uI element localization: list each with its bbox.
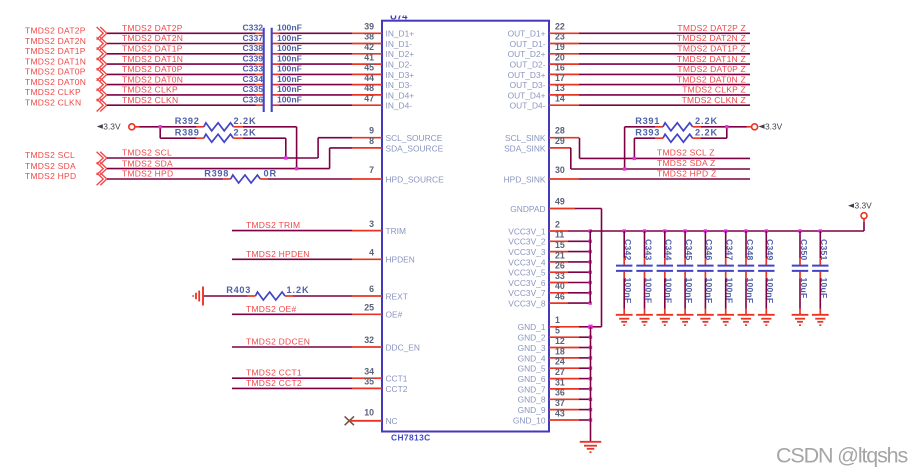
- wire R391 branch to SDA Z: [625, 127, 655, 169]
- svg-text:SDA_SINK: SDA_SINK: [504, 143, 546, 153]
- junction SCL / R389: [284, 156, 287, 159]
- wire ground to R403: [204, 295, 248, 297]
- svg-text:SDA_SOURCE: SDA_SOURCE: [386, 143, 444, 153]
- wire R393 branch to SCL Z: [634, 138, 655, 158]
- resistor R393 2.2K: [635, 128, 718, 143]
- wire TMDS2 HPD Z: [579, 178, 750, 180]
- svg-text:TMDS2 DAT2P: TMDS2 DAT2P: [122, 23, 183, 33]
- wire C342 to ground: [623, 278, 625, 314]
- pin 11 VCC3V_2: [508, 230, 568, 247]
- svg-text:TMDS2 DAT0N: TMDS2 DAT0N: [25, 77, 86, 87]
- svg-text:OUT_D3+: OUT_D3+: [508, 70, 546, 80]
- wire GND_8 to bus: [579, 398, 591, 400]
- wire VCC3V_5 to bus: [568, 271, 590, 273]
- pin 29 SDA_SINK: [504, 136, 571, 153]
- svg-text:C332: C332: [242, 23, 263, 33]
- capacitor C338 labels: [242, 43, 301, 53]
- junction VCC3V_7: [589, 291, 592, 294]
- label TMDS2 CCT2: [246, 378, 302, 388]
- pin 41 IN_D2-: [352, 52, 412, 69]
- svg-text:2.2K: 2.2K: [695, 128, 718, 138]
- wire TMDS2 DAT0N to capacitor C334: [107, 84, 256, 86]
- pin 5 GND_2: [518, 326, 579, 343]
- svg-text:TMDS2 SCL: TMDS2 SCL: [25, 150, 75, 160]
- capacitor C345 100nF: [677, 239, 694, 303]
- svg-text:VCC3V_7: VCC3V_7: [508, 288, 546, 298]
- capacitor C349 100nF: [758, 239, 775, 303]
- wire VCC3V_1 to bus: [568, 230, 590, 232]
- svg-text:TMDS2 DAT2P Z: TMDS2 DAT2P Z: [677, 23, 746, 33]
- wire GND_5 to bus: [579, 367, 591, 369]
- wire rail to C346: [704, 231, 706, 258]
- pin 12 GND_3: [518, 336, 579, 353]
- svg-text:2.2K: 2.2K: [695, 116, 718, 126]
- svg-text:100nF: 100nF: [277, 53, 302, 63]
- svg-text:38: 38: [364, 32, 374, 42]
- svg-text:TMDS2 DAT0P Z: TMDS2 DAT0P Z: [677, 64, 746, 74]
- svg-text:23: 23: [555, 32, 565, 42]
- capacitor C339 pins: [256, 63, 280, 65]
- svg-text:R389: R389: [175, 128, 200, 138]
- wire GND_10 to bus: [579, 419, 591, 421]
- svg-text:IN_D1-: IN_D1-: [386, 39, 413, 49]
- svg-text:TMDS2 DAT1P: TMDS2 DAT1P: [25, 46, 86, 56]
- svg-text:25: 25: [364, 303, 374, 313]
- resistor R392 2.2K: [175, 116, 257, 131]
- svg-text:R398: R398: [204, 168, 229, 178]
- capacitor C332 pins: [256, 32, 280, 34]
- junction VCC rail / C345: [683, 229, 686, 232]
- svg-text:TMDS2 CLKN: TMDS2 CLKN: [25, 98, 81, 108]
- svg-text:TMDS2 SDA: TMDS2 SDA: [122, 158, 173, 168]
- svg-text:C338: C338: [242, 43, 263, 53]
- capacitor C333 labels: [242, 64, 301, 74]
- svg-text:R391: R391: [635, 116, 660, 126]
- label TMDS2 SDA Z: [657, 158, 715, 168]
- svg-text:C350: C350: [799, 239, 809, 261]
- svg-text:OUT_D4-: OUT_D4-: [510, 101, 546, 111]
- svg-text:14: 14: [555, 93, 565, 103]
- label TMDS2 DDCEN: [246, 337, 310, 347]
- svg-text:VCC3V_8: VCC3V_8: [508, 299, 546, 309]
- svg-text:15: 15: [555, 240, 565, 250]
- wire TMDS2 DAT2N to capacitor C337: [107, 43, 256, 45]
- wire TMDS2 CCT2: [232, 387, 352, 389]
- wire VCC3V_7 to bus: [568, 292, 590, 294]
- svg-text:VCC3V_3: VCC3V_3: [508, 247, 546, 257]
- capacitor C351 10uF: [812, 239, 829, 298]
- wire GND_3 to bus: [579, 347, 591, 349]
- svg-text:TMDS2 HPD Z: TMDS2 HPD Z: [657, 168, 716, 178]
- junction GND_2: [589, 336, 592, 339]
- svg-text:12: 12: [555, 336, 565, 346]
- label TMDS2 DAT1N on wire: [122, 54, 183, 64]
- wire C343 to ground: [644, 278, 646, 314]
- svg-text:OUT_D2+: OUT_D2+: [508, 49, 546, 59]
- svg-text:GND_1: GND_1: [518, 322, 546, 332]
- junction VCC rail / C342: [623, 229, 626, 232]
- svg-text:TMDS2 SDA: TMDS2 SDA: [25, 161, 76, 171]
- capacitor C338 pins: [256, 53, 280, 55]
- label +3.3V rail: [848, 201, 872, 211]
- svg-text:GND_5: GND_5: [518, 364, 546, 374]
- wire TMDS2 HPDEN: [232, 258, 352, 260]
- svg-text:43: 43: [555, 408, 565, 418]
- junction GND_4: [589, 356, 592, 359]
- pin 36 GND_8: [518, 388, 579, 405]
- label TMDS2 SDA: [122, 158, 173, 168]
- wire TMDS2 DAT1N to capacitor C339: [107, 63, 256, 65]
- junction VCC3V_1: [589, 229, 592, 232]
- svg-text:OUT_D2-: OUT_D2-: [510, 60, 546, 70]
- svg-text:2.2K: 2.2K: [234, 116, 257, 126]
- pin 14 OUT_D4-: [510, 93, 579, 110]
- capacitor C334 pins: [256, 84, 280, 86]
- ground under C344: [656, 315, 673, 326]
- node TMDS2 DAT1N left name: [25, 56, 86, 66]
- junction VCC rail / C347: [724, 229, 727, 232]
- svg-text:TMDS2 CCT2: TMDS2 CCT2: [246, 378, 302, 388]
- svg-text:IN_D1+: IN_D1+: [386, 29, 415, 39]
- pin 10 NC: [349, 408, 397, 427]
- power +3.3V left: [97, 121, 140, 131]
- svg-text:29: 29: [555, 136, 565, 146]
- wire rail to C345: [684, 231, 686, 258]
- pin 34 CCT1: [352, 366, 408, 383]
- ground under C342: [616, 315, 633, 326]
- svg-text:32: 32: [364, 335, 374, 345]
- svg-text:NC: NC: [386, 416, 398, 426]
- wire C344 to ground: [664, 278, 666, 314]
- svg-text:27: 27: [555, 367, 565, 377]
- label TMDS2 DAT0P on wire: [122, 64, 183, 74]
- svg-text:30: 30: [555, 165, 565, 175]
- svg-text:TMDS2 OE#: TMDS2 OE#: [246, 304, 296, 314]
- capacitor C348 100nF: [738, 239, 755, 303]
- svg-text:TMDS2 SCL: TMDS2 SCL: [122, 148, 172, 158]
- capacitor C337 labels: [242, 33, 301, 43]
- svg-text:34: 34: [364, 366, 374, 376]
- label TMDS2 SCL: [122, 148, 172, 158]
- svg-text:3: 3: [369, 219, 374, 229]
- svg-text:10: 10: [364, 408, 374, 418]
- svg-text:TMDS2 DAT0P: TMDS2 DAT0P: [122, 64, 183, 74]
- svg-text:4: 4: [369, 248, 374, 258]
- port connector TMDS2 CLKN: [97, 99, 107, 112]
- svg-text:TMDS2 CLKP: TMDS2 CLKP: [25, 87, 81, 97]
- wire GND_6 to bus: [579, 378, 591, 380]
- svg-text:VCC3V_6: VCC3V_6: [508, 278, 546, 288]
- svg-text:OUT_D1+: OUT_D1+: [508, 29, 546, 39]
- svg-text:TMDS2 DAT2N Z: TMDS2 DAT2N Z: [677, 33, 746, 43]
- port connector TMDS2 DAT2P: [97, 27, 107, 40]
- label TMDS2 HPD: [122, 169, 173, 179]
- svg-text:TMDS2 DAT2N: TMDS2 DAT2N: [25, 36, 86, 46]
- svg-text:C345: C345: [684, 239, 694, 261]
- ground under C350: [792, 315, 809, 326]
- ground under C343: [636, 315, 653, 326]
- label TMDS2 DAT0N on wire: [122, 74, 183, 84]
- wire VCC3V_8 to bus: [568, 302, 590, 304]
- svg-text:100nF: 100nF: [277, 64, 302, 74]
- wire TMDS2 CLKP to capacitor C335: [107, 94, 256, 96]
- no-connect X on pin 10: [345, 416, 354, 425]
- svg-text:44: 44: [364, 73, 374, 83]
- ground main: [580, 442, 602, 453]
- junction GND_5: [589, 367, 592, 370]
- capacitor C336 pins: [256, 104, 280, 106]
- svg-text:13: 13: [555, 83, 565, 93]
- svg-text:VCC3V_1: VCC3V_1: [508, 226, 546, 236]
- wire TMDS2 DAT2N Z: [579, 43, 750, 45]
- svg-text:37: 37: [555, 398, 565, 408]
- pin 30 HPD_SINK: [504, 165, 579, 184]
- wire R403 to pin 6 REXT: [293, 295, 352, 297]
- svg-text:41: 41: [364, 52, 374, 62]
- label TMDS2 CLKP Z: [682, 85, 746, 95]
- svg-text:GND_6: GND_6: [518, 374, 546, 384]
- junction GND_1: [588, 325, 592, 329]
- wire TMDS2 DAT0P to capacitor C333: [107, 73, 256, 75]
- svg-text:100nF: 100nF: [277, 74, 302, 84]
- label TMDS2 DAT1P on wire: [122, 44, 183, 54]
- wire VCC vertical bus: [589, 231, 591, 303]
- svg-text:OUT_D4+: OUT_D4+: [508, 90, 546, 100]
- wire GND_4 to bus: [579, 357, 591, 359]
- wire rail to C342: [623, 231, 625, 258]
- svg-text:IN_D3-: IN_D3-: [386, 80, 413, 90]
- pin 16 OUT_D3+: [508, 63, 579, 80]
- capacitor C350 10uF: [792, 239, 809, 298]
- wire TMDS2 DAT1P to capacitor C338: [107, 53, 256, 55]
- capacitor bank plates C332-C339: [264, 28, 272, 112]
- svg-text:36: 36: [555, 388, 565, 398]
- pin 21 VCC3V_4: [508, 250, 568, 267]
- label TMDS2 HPD Z: [657, 168, 716, 178]
- svg-text:100nF: 100nF: [277, 23, 302, 33]
- wire C333 to pin 45: [280, 73, 353, 75]
- svg-text:VCC3V_4: VCC3V_4: [508, 257, 546, 267]
- pin 38 IN_D1-: [352, 32, 412, 49]
- pin 24 GND_5: [518, 357, 579, 374]
- wire rail to C347: [725, 231, 727, 258]
- pin 47 IN_D4-: [352, 93, 412, 110]
- pin 4 HPDEN: [352, 248, 415, 265]
- wire VCC3V_2 to bus: [568, 240, 590, 242]
- svg-text:C339: C339: [242, 53, 263, 63]
- svg-text:9: 9: [369, 126, 374, 136]
- wire rail to C344: [664, 231, 666, 258]
- junction R393 / SCL Z: [633, 157, 636, 160]
- svg-text:TMDS2 CLKP: TMDS2 CLKP: [122, 85, 178, 95]
- wire rail to C349: [765, 231, 767, 258]
- resistor R398 0R: [204, 168, 277, 183]
- wire C349 to ground: [765, 278, 767, 314]
- ground under C347: [717, 315, 734, 326]
- label TMDS2 CLKP on wire: [122, 85, 178, 95]
- svg-text:C347: C347: [725, 239, 735, 261]
- wire C350 to ground: [799, 278, 801, 314]
- wire C338 to pin 42: [280, 53, 353, 55]
- svg-text:TMDS2 DAT1N: TMDS2 DAT1N: [122, 54, 183, 64]
- junction VCC3V_3: [589, 250, 592, 253]
- wire TMDS2 CLKN to capacitor C336: [107, 104, 256, 106]
- svg-text:6: 6: [369, 284, 374, 294]
- svg-text:TMDS2 SDA Z: TMDS2 SDA Z: [657, 158, 715, 168]
- op-amp U? partial designator (cropped text above chip): [390, 11, 408, 22]
- wire TMDS2 SDA Z: [571, 148, 750, 169]
- pin 49 GNDPAD: [510, 197, 575, 215]
- svg-text:45: 45: [364, 63, 374, 73]
- junction GND_3: [589, 346, 592, 349]
- svg-text:CSDN @ltqshs: CSDN @ltqshs: [776, 444, 907, 468]
- wire VCC3V power rail: [590, 219, 864, 231]
- svg-text:OE#: OE#: [386, 310, 403, 320]
- pin 45 IN_D3+: [352, 63, 414, 80]
- pin 1 GND_1: [518, 315, 579, 332]
- junction R391 / SDA Z: [623, 167, 626, 170]
- capacitor C343 100nF: [636, 239, 653, 303]
- capacitor C344 100nF: [657, 239, 674, 303]
- capacitor C337 pins: [256, 43, 280, 45]
- svg-text:C342: C342: [623, 239, 633, 261]
- svg-text:31: 31: [555, 377, 565, 387]
- junction VCC3V_6: [589, 281, 592, 284]
- pin 35 CCT2: [352, 377, 408, 394]
- svg-text:1: 1: [555, 315, 560, 325]
- svg-text:35: 35: [364, 377, 374, 387]
- svg-text:TMDS2 DAT1P Z: TMDS2 DAT1P Z: [677, 44, 746, 54]
- port connector TMDS2 SCL: [97, 152, 107, 165]
- resistor R391 2.2K: [635, 116, 718, 131]
- label TMDS2 DAT1P Z: [677, 44, 746, 54]
- junction GND_6: [589, 377, 592, 380]
- svg-text:24: 24: [555, 357, 565, 367]
- svg-text:7: 7: [369, 165, 374, 175]
- junction VCC rail / C350: [798, 229, 801, 232]
- junction VCC3V_5: [589, 271, 592, 274]
- svg-text:C351: C351: [819, 239, 829, 261]
- pin 23 OUT_D1-: [510, 32, 579, 49]
- node TMDS2 SDA left name: [25, 161, 76, 171]
- svg-text:SCL_SINK: SCL_SINK: [505, 133, 546, 143]
- capacitor C336 labels: [242, 95, 301, 105]
- svg-text:TRIM: TRIM: [386, 226, 406, 236]
- pin 7 HPD_SOURCE: [352, 165, 444, 184]
- node TMDS2 CLKN left name: [25, 98, 81, 108]
- svg-text:TMDS2 CCT1: TMDS2 CCT1: [246, 368, 302, 378]
- junction SDA / R392: [295, 167, 298, 170]
- ground under C349: [758, 315, 775, 326]
- port connector TMDS2 DAT1N: [97, 58, 107, 71]
- wire C346 to ground: [704, 278, 706, 314]
- node TMDS2 DAT0N left name: [25, 77, 86, 87]
- svg-text:CH7813C: CH7813C: [391, 432, 431, 442]
- wire GND_9 to bus: [579, 409, 591, 411]
- label TMDS2 DAT0P Z: [677, 64, 746, 74]
- wire TMDS2 DDCEN: [232, 346, 352, 348]
- svg-text:DDC_EN: DDC_EN: [386, 342, 420, 352]
- node TMDS2 CLKP left name: [25, 87, 81, 97]
- svg-text:C346: C346: [704, 239, 714, 261]
- svg-text:GNDPAD: GNDPAD: [510, 204, 545, 214]
- wire rail to C350: [799, 231, 801, 258]
- label TMDS2 CLKN on wire: [122, 95, 178, 105]
- pin 26 VCC3V_5: [508, 261, 568, 278]
- svg-text:TMDS2 CLKN: TMDS2 CLKN: [122, 95, 178, 105]
- junction VCC3V_8: [589, 301, 592, 304]
- junction GND_10: [589, 418, 592, 421]
- svg-text:3.3V: 3.3V: [855, 201, 873, 211]
- svg-text:42: 42: [364, 42, 374, 52]
- wire C337 to pin 38: [280, 43, 353, 45]
- svg-text:GND_9: GND_9: [518, 405, 546, 415]
- IC U CH7813C body: [382, 21, 549, 443]
- junction GND_9: [589, 408, 592, 411]
- svg-text:18: 18: [555, 346, 565, 356]
- wire TMDS2 SCL Z: [580, 138, 751, 159]
- node TMDS2 DAT0P left name: [25, 67, 86, 77]
- wire +3.3V to resistors: [140, 127, 197, 138]
- ground under C348: [738, 315, 755, 326]
- pin 31 GND_7: [518, 377, 579, 394]
- svg-text:8: 8: [369, 136, 374, 146]
- pin 8 SDA_SOURCE: [352, 136, 444, 153]
- wire TMDS2 SCL: [107, 138, 352, 158]
- port connector TMDS2 HPD: [97, 173, 107, 186]
- svg-text:C335: C335: [242, 84, 263, 94]
- svg-text:C349: C349: [765, 239, 775, 261]
- pin 43 GND_10: [513, 408, 579, 425]
- svg-text:OUT_D3-: OUT_D3-: [510, 80, 546, 90]
- svg-text:VCC3V_2: VCC3V_2: [508, 237, 546, 247]
- svg-text:40: 40: [555, 281, 565, 291]
- wire C332 to pin 39: [280, 32, 353, 34]
- capacitor C347 100nF: [718, 239, 735, 303]
- svg-text:CCT1: CCT1: [386, 374, 408, 384]
- pin 9 SCL_SOURCE: [352, 126, 443, 143]
- wire TMDS2 CLKP Z: [579, 94, 750, 96]
- wire TMDS2 DAT1N Z: [579, 63, 750, 65]
- svg-text:R392: R392: [175, 116, 200, 126]
- svg-text:TMDS2 DAT0P: TMDS2 DAT0P: [25, 67, 86, 77]
- resistor R403 1.2K: [226, 285, 309, 300]
- pin 13 OUT_D4+: [508, 83, 579, 100]
- label TMDS2 OE#: [246, 304, 296, 314]
- svg-text:2: 2: [555, 219, 560, 229]
- pin 15 VCC3V_3: [508, 240, 568, 257]
- pin 19 OUT_D2+: [508, 42, 579, 59]
- label TMDS2 DAT2N on wire: [122, 33, 183, 43]
- svg-text:19: 19: [555, 42, 565, 52]
- wire C335 to pin 48: [280, 94, 353, 96]
- svg-text:C344: C344: [664, 239, 674, 261]
- wire TMDS2 CCT1: [232, 377, 352, 379]
- junction VCC rail / C349: [765, 229, 768, 232]
- svg-text:HPD_SINK: HPD_SINK: [504, 174, 546, 184]
- power +3.3V right of R391: [752, 121, 783, 131]
- svg-text:GND_8: GND_8: [518, 395, 546, 405]
- svg-text:16: 16: [555, 63, 565, 73]
- junction R393 / R391: [725, 125, 728, 128]
- wire TMDS2 DAT1P Z: [579, 53, 750, 55]
- svg-text:46: 46: [555, 292, 565, 302]
- svg-text:5: 5: [555, 326, 560, 336]
- svg-text:39: 39: [364, 22, 374, 32]
- label TMDS2 DAT2P on wire: [122, 23, 183, 33]
- svg-text:11: 11: [555, 230, 564, 240]
- wire VCC3V_6 to bus: [568, 282, 590, 284]
